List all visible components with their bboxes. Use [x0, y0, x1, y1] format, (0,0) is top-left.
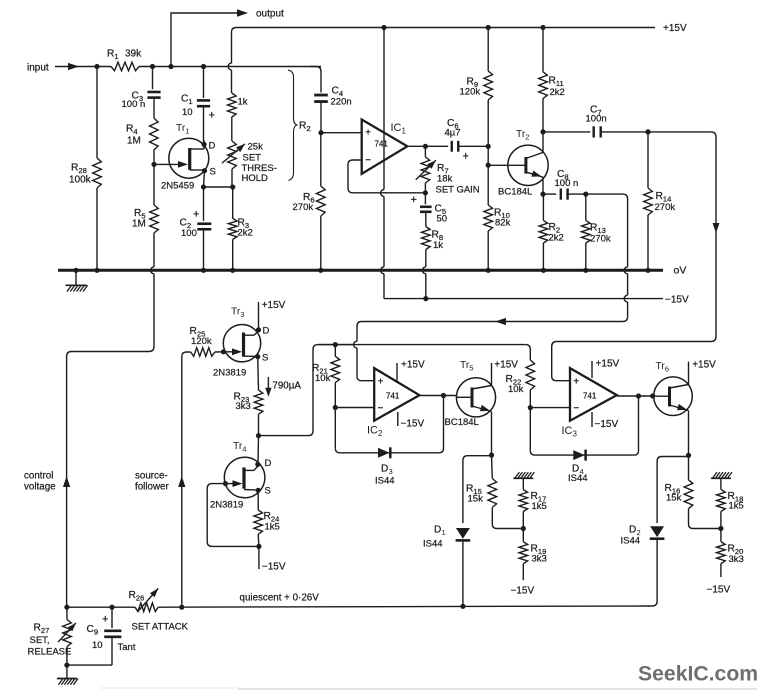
svg-text:−15V: −15V	[595, 419, 619, 430]
svg-text:4µ7: 4µ7	[445, 128, 461, 139]
svg-text:2k2: 2k2	[238, 228, 253, 239]
svg-text:IS44: IS44	[621, 536, 641, 547]
svg-text:−: −	[573, 403, 579, 414]
svg-text:2N3819: 2N3819	[210, 500, 243, 511]
svg-text:15k: 15k	[666, 493, 682, 504]
svg-text:790µA: 790µA	[272, 381, 301, 392]
svg-text:1M: 1M	[127, 136, 141, 147]
svg-text:3k3: 3k3	[236, 401, 251, 412]
svg-text:D: D	[629, 525, 636, 536]
svg-text:−15V: −15V	[665, 295, 689, 306]
svg-text:+15V: +15V	[494, 360, 518, 371]
svg-text:D: D	[209, 141, 216, 152]
svg-text:+15V: +15V	[262, 300, 286, 311]
svg-text:100: 100	[181, 228, 197, 239]
svg-text:follower: follower	[135, 482, 169, 493]
svg-text:+: +	[411, 194, 417, 206]
svg-text:BC184L: BC184L	[445, 417, 479, 428]
svg-text:18k: 18k	[437, 174, 453, 185]
svg-text:2k2: 2k2	[550, 87, 565, 98]
svg-text:+: +	[193, 209, 199, 221]
svg-text:1M: 1M	[132, 219, 146, 230]
svg-text:+: +	[378, 376, 384, 387]
svg-text:1k5: 1k5	[729, 501, 744, 512]
svg-text:10: 10	[182, 107, 193, 118]
svg-text:S: S	[262, 353, 268, 364]
svg-text:+15V: +15V	[663, 23, 687, 34]
svg-text:10k: 10k	[508, 384, 524, 395]
svg-text:100 n: 100 n	[555, 178, 579, 189]
svg-text:120k: 120k	[191, 336, 212, 347]
svg-text:100n: 100n	[586, 114, 607, 125]
svg-text:quiescent + 0·26V: quiescent + 0·26V	[240, 593, 320, 604]
svg-text:25k: 25k	[248, 142, 264, 153]
svg-text:50: 50	[437, 214, 448, 225]
svg-text:15k: 15k	[468, 494, 484, 505]
svg-text:2N3819: 2N3819	[213, 368, 246, 379]
svg-text:+: +	[573, 376, 579, 387]
svg-text:+15V: +15V	[401, 360, 425, 371]
svg-text:Tant: Tant	[118, 642, 136, 653]
svg-text:output: output	[256, 9, 284, 20]
svg-text:voltage: voltage	[24, 482, 56, 493]
svg-text:D: D	[434, 525, 441, 536]
svg-text:−15V: −15V	[401, 419, 425, 430]
svg-text:oV: oV	[674, 265, 687, 277]
svg-text:1k5: 1k5	[532, 501, 547, 512]
svg-text:100k: 100k	[69, 175, 92, 186]
svg-text:741: 741	[386, 391, 400, 400]
svg-text:270k: 270k	[590, 234, 611, 245]
svg-text:741: 741	[375, 140, 389, 149]
svg-text:−15V: −15V	[511, 586, 535, 597]
svg-text:1k5: 1k5	[265, 522, 280, 533]
svg-text:−15V: −15V	[262, 562, 286, 573]
svg-text:SeekIC.com: SeekIC.com	[638, 663, 758, 686]
svg-text:−: −	[378, 403, 384, 414]
svg-text:RELEASE: RELEASE	[28, 647, 72, 658]
svg-text:BC184L: BC184L	[498, 187, 532, 198]
svg-text:2N5459: 2N5459	[161, 181, 194, 192]
svg-text:+15V: +15V	[596, 359, 620, 370]
svg-text:+: +	[209, 110, 215, 122]
svg-text:source-: source-	[135, 471, 168, 482]
svg-text:1k: 1k	[238, 97, 248, 108]
svg-text:100 n: 100 n	[122, 99, 146, 110]
svg-text:IS44: IS44	[375, 476, 395, 487]
svg-text:120k: 120k	[460, 87, 481, 98]
svg-text:+: +	[365, 127, 371, 138]
svg-text:741: 741	[583, 391, 597, 400]
svg-text:−: −	[365, 155, 371, 166]
svg-text:10: 10	[92, 640, 103, 651]
svg-text:control: control	[24, 471, 53, 482]
svg-text:D: D	[381, 464, 388, 475]
svg-text:D: D	[263, 326, 270, 337]
svg-text:3k3: 3k3	[532, 554, 547, 565]
svg-text:10k: 10k	[315, 373, 331, 384]
svg-text:3k3: 3k3	[729, 554, 744, 565]
svg-text:270k: 270k	[293, 202, 314, 213]
svg-text:HOLD: HOLD	[242, 173, 269, 184]
svg-text:270k: 270k	[655, 202, 676, 213]
svg-text:S: S	[265, 486, 271, 497]
svg-text:2k2: 2k2	[549, 233, 564, 244]
svg-text:SET GAIN: SET GAIN	[436, 184, 480, 195]
svg-text:1k: 1k	[433, 240, 443, 251]
svg-text:+15V: +15V	[692, 360, 716, 371]
svg-text:220n: 220n	[331, 97, 352, 108]
svg-text:+: +	[463, 151, 469, 163]
svg-text:−15V: −15V	[707, 585, 731, 596]
svg-text:39k: 39k	[125, 49, 142, 60]
svg-text:input: input	[27, 63, 49, 74]
svg-text:1: 1	[442, 528, 446, 537]
svg-text:S: S	[210, 167, 216, 178]
svg-text:+: +	[102, 614, 108, 626]
svg-text:IS44: IS44	[423, 539, 443, 550]
svg-text:SET ATTACK: SET ATTACK	[132, 622, 189, 633]
svg-text:SET,: SET,	[30, 635, 50, 646]
svg-text:IS44: IS44	[568, 473, 588, 484]
svg-text:D: D	[265, 458, 272, 469]
svg-text:82k: 82k	[495, 218, 511, 229]
